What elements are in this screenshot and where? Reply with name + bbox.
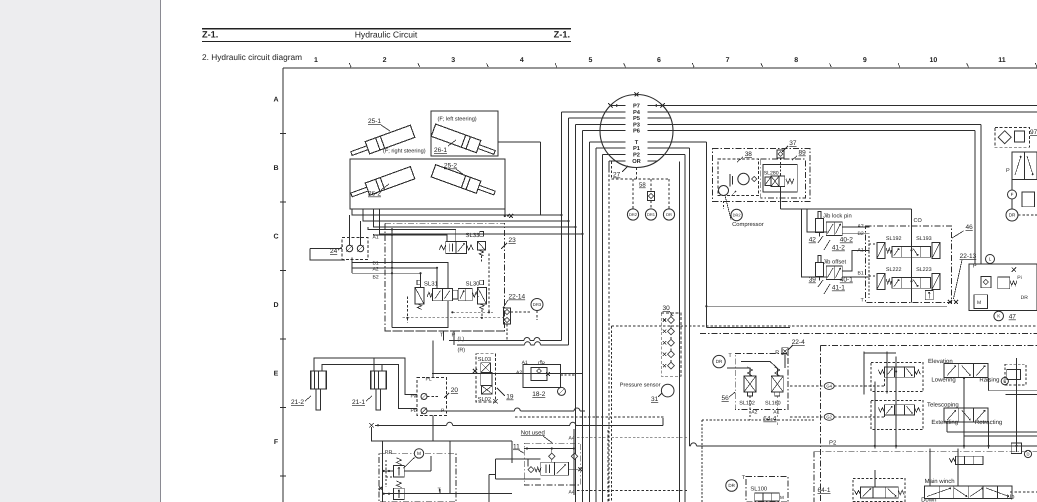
svg-text:B1: B1 — [858, 271, 864, 277]
svg-text:CO: CO — [914, 218, 923, 224]
svg-text:6: 6 — [657, 57, 661, 64]
svg-text:A1: A1 — [522, 360, 528, 366]
svg-text:56: 56 — [722, 395, 730, 402]
svg-text:20: 20 — [451, 387, 459, 394]
svg-text:DR: DR — [728, 483, 735, 488]
svg-text:A1: A1 — [373, 235, 379, 241]
svg-text:Not used: Not used — [521, 429, 545, 436]
svg-text:F: F — [274, 439, 279, 446]
svg-text:Jib offset: Jib offset — [823, 259, 846, 266]
svg-text:A2: A2 — [858, 224, 864, 230]
svg-text:SL33: SL33 — [466, 232, 481, 239]
svg-text:(R): (R) — [458, 348, 466, 354]
svg-text:G4: G4 — [826, 384, 832, 389]
svg-text:40-1: 40-1 — [840, 277, 853, 284]
svg-text:B2: B2 — [858, 231, 864, 237]
svg-text:40-2: 40-2 — [840, 237, 853, 244]
svg-text:(F; right steering): (F; right steering) — [383, 148, 426, 155]
svg-text:3: 3 — [451, 57, 455, 64]
svg-text:PR: PR — [385, 450, 393, 456]
svg-text:SL30: SL30 — [466, 280, 481, 287]
svg-text:21-1: 21-1 — [352, 399, 365, 406]
svg-text:DR: DR — [1009, 213, 1016, 218]
svg-text:C: C — [273, 234, 278, 241]
svg-text:DR2: DR2 — [629, 212, 638, 217]
svg-text:46: 46 — [966, 224, 974, 231]
svg-text:7: 7 — [726, 57, 730, 64]
svg-text:Pi: Pi — [1017, 275, 1021, 281]
svg-text:Pb: Pb — [411, 408, 417, 414]
svg-text:25-2: 25-2 — [444, 163, 457, 170]
svg-text:D: D — [273, 302, 278, 309]
svg-text:B: B — [273, 165, 278, 172]
svg-text:Extending: Extending — [931, 419, 958, 426]
svg-text:DR3: DR3 — [533, 302, 542, 307]
svg-text:89: 89 — [799, 150, 807, 157]
svg-text:K: K — [997, 314, 1000, 319]
svg-text:42: 42 — [809, 237, 817, 244]
svg-text:SL280: SL280 — [764, 171, 779, 177]
svg-text:26-2: 26-2 — [368, 191, 381, 198]
svg-text:Raising: Raising — [979, 377, 999, 384]
svg-text:22-14: 22-14 — [509, 294, 526, 301]
svg-text:SL192: SL192 — [886, 236, 902, 242]
svg-text:(F; left steering): (F; left steering) — [438, 116, 477, 123]
svg-text:M: M — [977, 300, 981, 306]
svg-text:D: D — [1026, 452, 1029, 457]
svg-text:39: 39 — [809, 277, 817, 284]
svg-text:25-1: 25-1 — [368, 118, 381, 125]
svg-text:4: 4 — [520, 57, 524, 64]
svg-text:64-4: 64-4 — [763, 416, 776, 423]
svg-text:58: 58 — [639, 182, 646, 189]
svg-text:Z-1.: Z-1. — [554, 30, 570, 40]
svg-text:DR1: DR1 — [647, 212, 656, 217]
svg-text:SL222: SL222 — [886, 267, 902, 273]
svg-text:41-2: 41-2 — [832, 245, 845, 252]
svg-text:P7: P7 — [633, 104, 640, 110]
svg-text:T: T — [635, 140, 639, 146]
svg-text:T: T — [861, 298, 864, 304]
svg-text:P2: P2 — [829, 439, 837, 446]
svg-text:Main winch: Main winch — [925, 478, 955, 485]
svg-text:DR: DR — [666, 212, 672, 217]
svg-text:21-2: 21-2 — [291, 399, 304, 406]
svg-text:A2: A2 — [751, 410, 757, 416]
svg-text:22-13: 22-13 — [960, 253, 977, 260]
svg-text:1: 1 — [314, 57, 318, 64]
svg-text:DR2: DR2 — [733, 212, 742, 217]
svg-text:A: A — [273, 97, 278, 104]
svg-text:Z-1.: Z-1. — [202, 30, 218, 40]
svg-text:B2: B2 — [373, 275, 379, 281]
svg-text:(L): (L) — [458, 337, 465, 343]
svg-text:P1: P1 — [633, 146, 640, 152]
svg-text:37: 37 — [789, 140, 797, 147]
svg-text:19: 19 — [506, 394, 514, 401]
svg-text:18-2: 18-2 — [532, 391, 545, 398]
svg-text:Up: Up — [1007, 494, 1015, 501]
svg-text:64-1: 64-1 — [818, 487, 831, 494]
svg-text:2: 2 — [383, 57, 387, 64]
svg-text:PL: PL — [426, 377, 432, 383]
svg-text:Hydraulic Circuit: Hydraulic Circuit — [355, 30, 418, 40]
svg-text:DR: DR — [716, 359, 723, 364]
svg-text:5: 5 — [588, 57, 592, 64]
svg-text:Down: Down — [921, 497, 936, 502]
svg-text:P6: P6 — [633, 129, 640, 135]
svg-text:SL193: SL193 — [916, 236, 932, 242]
svg-text:97: 97 — [1030, 129, 1037, 136]
svg-text:P2: P2 — [633, 153, 640, 159]
svg-text:26-1: 26-1 — [434, 147, 447, 154]
svg-text:Telescoping: Telescoping — [927, 402, 959, 409]
svg-text:Pa: Pa — [411, 394, 417, 400]
svg-text:47: 47 — [1009, 314, 1017, 321]
svg-text:24: 24 — [330, 248, 338, 255]
svg-text:Jib lock pin: Jib lock pin — [823, 213, 852, 220]
svg-text:38: 38 — [745, 151, 753, 158]
svg-text:P: P — [973, 264, 977, 270]
svg-text:SL31: SL31 — [424, 280, 439, 287]
svg-text:SL02: SL02 — [478, 396, 492, 403]
svg-text:SL100: SL100 — [750, 486, 767, 493]
svg-text:Compressor: Compressor — [732, 221, 764, 228]
svg-text:23: 23 — [509, 237, 517, 244]
svg-text:SL03: SL03 — [478, 356, 492, 363]
svg-text:11: 11 — [998, 57, 1006, 64]
svg-text:27: 27 — [613, 172, 621, 179]
svg-text:P5: P5 — [633, 116, 640, 122]
svg-text:9: 9 — [863, 57, 867, 64]
svg-text:F: F — [1011, 192, 1014, 197]
svg-text:SL102: SL102 — [739, 401, 755, 407]
svg-text:11: 11 — [513, 443, 520, 450]
svg-text:DR: DR — [1021, 295, 1029, 301]
svg-text:Pressure sensor: Pressure sensor — [620, 383, 661, 389]
svg-text:P: P — [1006, 168, 1010, 174]
svg-text:31: 31 — [651, 396, 659, 403]
svg-text:E: E — [274, 371, 279, 378]
svg-text:Lowering: Lowering — [931, 377, 955, 384]
svg-text:30: 30 — [663, 305, 671, 312]
svg-text:2. Hydraulic circuit diagram: 2. Hydraulic circuit diagram — [202, 52, 302, 62]
svg-text:SL160: SL160 — [765, 401, 781, 407]
svg-text:8: 8 — [794, 57, 798, 64]
svg-text:SL223: SL223 — [916, 267, 932, 273]
svg-text:M: M — [417, 451, 421, 457]
svg-text:41-1: 41-1 — [832, 285, 845, 292]
svg-text:10: 10 — [930, 57, 938, 64]
svg-text:A2: A2 — [516, 370, 522, 376]
svg-text:G2: G2 — [826, 415, 832, 420]
svg-text:OR: OR — [632, 159, 641, 165]
svg-text:22-4: 22-4 — [792, 339, 805, 346]
svg-text:M: M — [780, 495, 784, 500]
